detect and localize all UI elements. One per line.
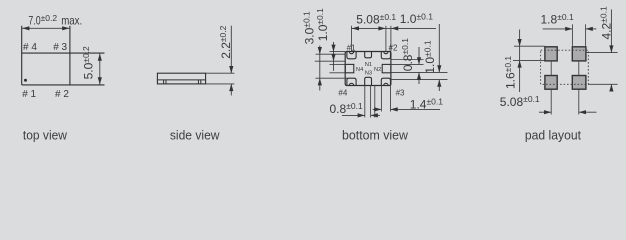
svg-text:# 4: # 4 <box>23 42 37 53</box>
svg-text:# 1: # 1 <box>22 89 36 100</box>
svg-text:N2: N2 <box>374 67 381 73</box>
svg-text:# 2: # 2 <box>55 89 69 100</box>
svg-text:#2: #2 <box>389 44 398 53</box>
svg-text:top view: top view <box>23 128 68 143</box>
svg-text:N1: N1 <box>365 62 372 68</box>
svg-text:bottom view: bottom view <box>342 128 409 143</box>
svg-text:max.: max. <box>61 14 82 28</box>
svg-text:side view: side view <box>170 128 220 143</box>
svg-text:#3: #3 <box>396 89 405 98</box>
svg-text:# 3: # 3 <box>53 42 67 53</box>
svg-text:#4: #4 <box>338 89 347 98</box>
svg-text:N4: N4 <box>356 67 364 73</box>
svg-text:N3: N3 <box>365 71 372 77</box>
svg-text:pad layout: pad layout <box>525 128 581 143</box>
